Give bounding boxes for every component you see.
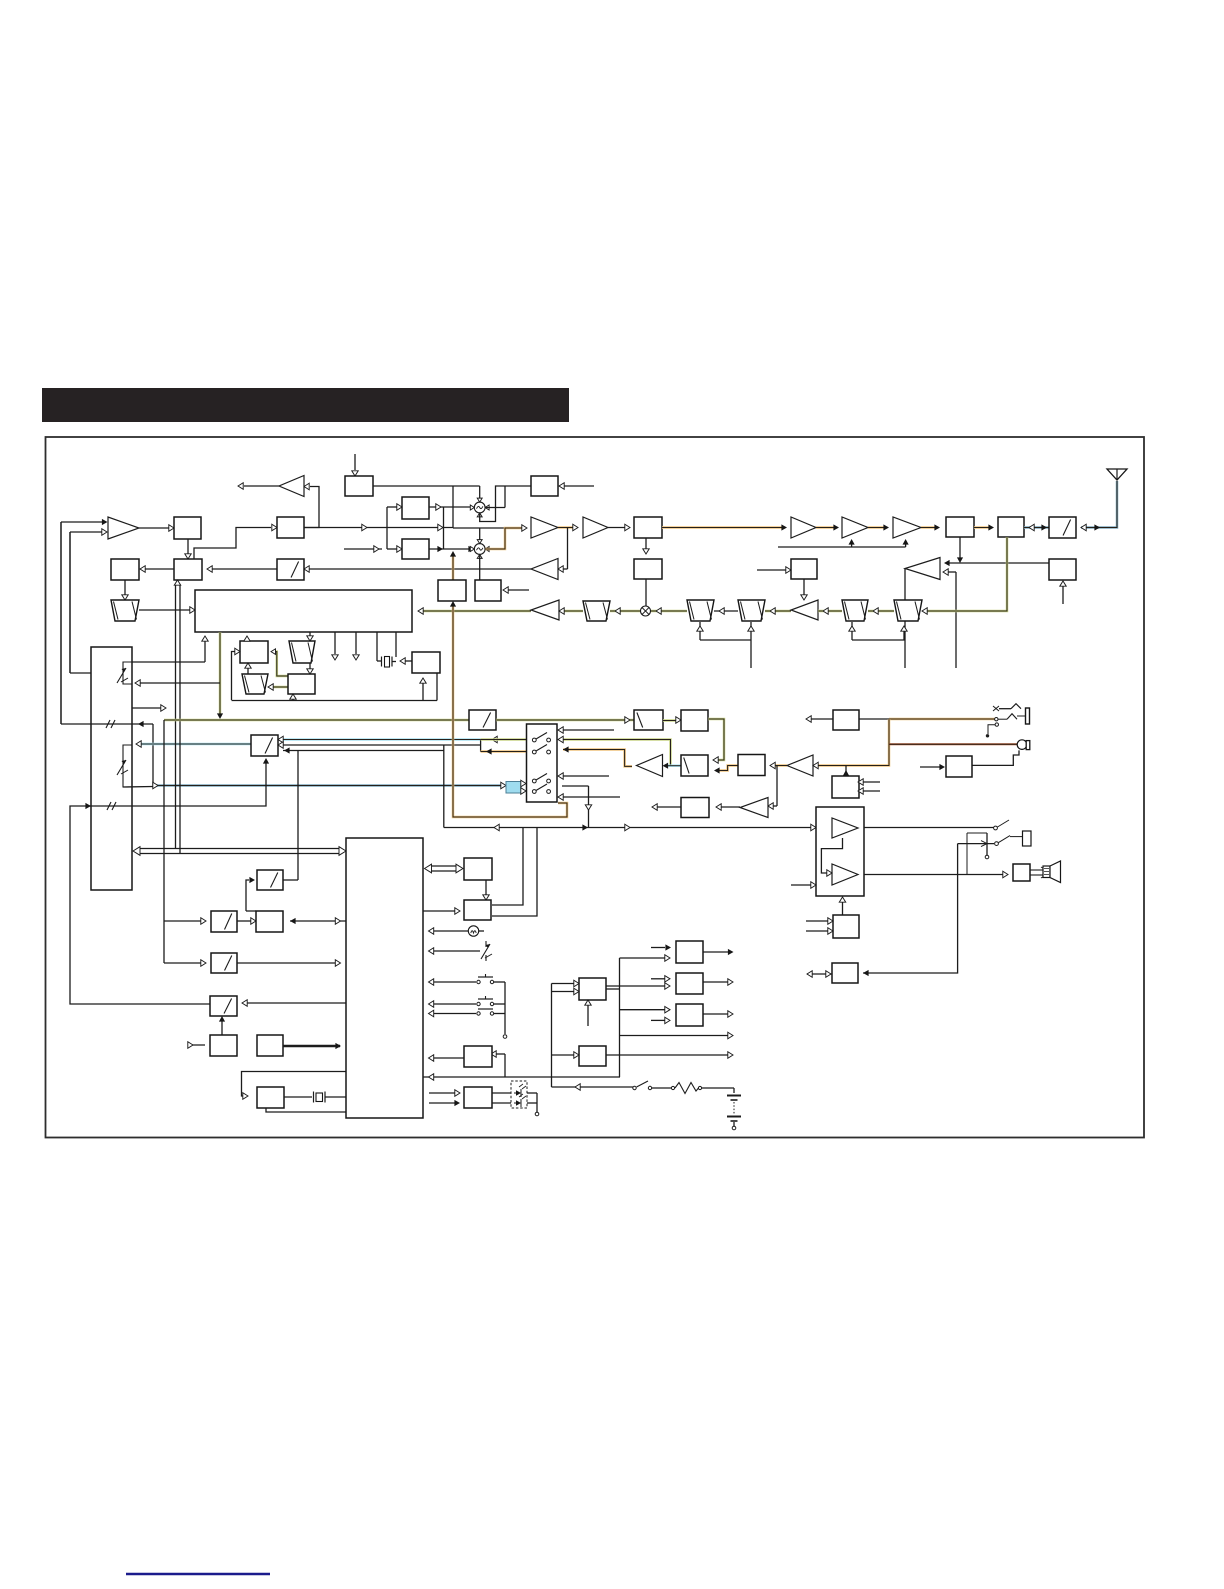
box L1: [111, 559, 139, 580]
battery BT1: [727, 1096, 741, 1130]
wire x620 vertical: [619, 958, 621, 1077]
stub into M2 right: [559, 483, 594, 489]
wire tallbox top feed: [70, 532, 91, 673]
amp A3: [583, 517, 608, 538]
wire to fuse: [652, 1087, 671, 1089]
wire PLL to crystal: [377, 632, 396, 661]
long verticals from amp A1 inputs: [61, 522, 70, 724]
box K6: [210, 1035, 237, 1056]
switch S2b: [532, 784, 550, 793]
wire K5 to X2: [284, 1096, 312, 1098]
button SW3: [429, 1009, 506, 1017]
IC audio PA: [816, 807, 864, 896]
wire K1 feed: [164, 918, 206, 924]
wire power line: [552, 1084, 634, 1090]
box olive1: [469, 710, 496, 730]
wire box4 to box3 orange: [714, 766, 738, 774]
wire K5 bottom to CPU: [266, 1108, 346, 1112]
wire BA in1: [651, 944, 671, 950]
wire J up to boxI: [297, 751, 299, 880]
wire cpu to R: [423, 908, 460, 914]
box W2: [791, 559, 817, 579]
wire G to E: [307, 663, 313, 674]
button SW1: [429, 974, 506, 985]
mic jack J2: [889, 740, 1030, 750]
IC switch matrix: [91, 647, 132, 890]
wire into amp A1 lower: [70, 529, 107, 535]
box V1 mod amp: [438, 580, 466, 601]
wire Q in1: [858, 779, 880, 785]
wire pa bottom tap: [839, 897, 845, 915]
wire H bottom tap: [420, 678, 426, 700]
box K3: [211, 953, 237, 973]
wire fuse to battery: [702, 1088, 734, 1093]
wire box5 out: [652, 804, 681, 810]
box5 af amp: [681, 798, 709, 818]
jack J1 contact lower: [995, 714, 1025, 721]
wire PLL out down arrows: [332, 632, 359, 660]
box BC reg: [676, 1004, 703, 1026]
wire into D left: [232, 648, 241, 700]
wire PLL to G: [307, 632, 313, 641]
box P2: [998, 517, 1024, 537]
thermistor TH1: [429, 926, 485, 936]
filter TF2: [687, 600, 714, 621]
wire RX into PLL: [418, 608, 531, 614]
wire TF3-TRIF: [765, 608, 791, 614]
mixer MIX1: [470, 498, 489, 517]
box V2: [475, 580, 501, 601]
wire R right1: [492, 828, 523, 906]
wire mixer3-TF2: [651, 608, 687, 614]
orange into switch: [481, 748, 527, 754]
wire mixer1 hook to M2: [480, 486, 531, 522]
long wire y527 from B3: [304, 524, 453, 530]
wire BL2 in: [552, 1052, 580, 1058]
wire x777 to TRIH: [768, 766, 777, 810]
wire B4 to B2: [207, 566, 277, 572]
IC analog switch: [527, 724, 558, 802]
wire BC in1: [620, 1006, 671, 1012]
trimmer notch upper: [123, 662, 132, 684]
sp jack J3: [1023, 831, 1032, 846]
amp TRI_F2: [787, 755, 813, 776]
box K2: [256, 911, 283, 932]
wire inside pa: [821, 838, 842, 876]
wire into TRIF-top box: [757, 567, 791, 573]
wire pa in2: [791, 882, 816, 888]
wire sw orange y750: [563, 746, 632, 766]
wire spk bus: [1030, 867, 1046, 878]
box B4 att: [277, 559, 304, 580]
wire A4-A5: [816, 524, 839, 530]
wire mixer1 right feed: [485, 486, 505, 508]
wire mod input y549: [344, 546, 402, 552]
wire B2 verticals: [174, 580, 180, 854]
wire B3 up to TRI1: [304, 483, 319, 527]
wire TF4-TRIF: [818, 608, 842, 614]
box F1 af sw: [833, 915, 859, 938]
box K5 reset: [257, 1087, 284, 1108]
wire BL1 feed: [552, 980, 580, 1087]
box H tcxo: [412, 652, 440, 673]
wire mixer2 bottom to V2: [479, 555, 481, 581]
olive line y721b: [496, 717, 634, 723]
box P1: [946, 517, 974, 537]
box Q squelch: [832, 776, 859, 798]
wire E to D olive: [271, 649, 288, 676]
wire Q in2: [858, 788, 880, 794]
box M1: [345, 476, 373, 496]
jack J1 break contact: [986, 723, 999, 738]
amp TRI_E: [832, 864, 858, 885]
wire BB out: [703, 979, 733, 985]
wire K5 feed elbow: [242, 1072, 347, 1100]
trimmer RV1: [117, 668, 128, 683]
filter T1: [111, 600, 139, 621]
amp TRI_C: [531, 600, 559, 620]
wire BL1 feed2: [552, 988, 580, 994]
wire B1 down to B2: [185, 539, 191, 559]
amp A6 PA: [893, 517, 921, 538]
wire F2 left bidir: [807, 971, 832, 977]
wire L1 down to filter T1: [122, 580, 128, 600]
wire TRI2 to B4: [304, 566, 531, 572]
box BL1 batt det: [579, 978, 606, 1000]
amp TRI_D: [832, 818, 858, 838]
wire leds common: [527, 1093, 539, 1116]
wire into mixer2 top: [479, 528, 481, 540]
wire TF1-TRIC: [559, 608, 583, 614]
wire sw stub y797: [558, 794, 620, 800]
wire BC out: [703, 1011, 733, 1017]
box D vco: [240, 641, 268, 663]
bus tallbox-cpu: [133, 847, 346, 856]
wire TRIH to box5: [716, 804, 740, 810]
wire olive vco out: [217, 632, 223, 719]
wire sw olive y740: [558, 736, 671, 765]
wire jog x480: [480, 740, 482, 752]
wire T1 to PLL: [139, 607, 195, 613]
wire af vol feed: [889, 718, 995, 721]
wire spk line: [864, 871, 1008, 877]
wire P1-P2: [974, 524, 994, 530]
wire mixer2 out orange: [485, 525, 527, 549]
amp TRI2 buffer: [531, 559, 558, 580]
wire T right: [491, 1051, 505, 1077]
IC CPU: [346, 838, 423, 1118]
wire TF1-mixer3: [610, 608, 640, 614]
wire S down to R: [483, 880, 489, 900]
wire K2 to CPU: [290, 918, 346, 924]
wire olive2-olive3: [663, 717, 681, 723]
jack J3 contact b: [958, 836, 1022, 847]
wire F1 in1: [806, 918, 833, 924]
box olive3: [681, 710, 708, 731]
box W mic amp: [833, 710, 859, 730]
wire AGC from TRI3: [904, 569, 906, 669]
wire RX from P2: [922, 537, 1007, 614]
wire P2-P3: [1024, 524, 1049, 530]
wire BL2 out: [606, 1052, 733, 1058]
box F2 ext sp: [832, 963, 858, 983]
wire olive3 hook to box3: [708, 719, 724, 763]
jack J3 contact a: [994, 820, 1009, 830]
mixer MIX2: [470, 540, 489, 559]
wire BB in2: [605, 983, 670, 989]
trimmer notch lower: [123, 745, 132, 787]
amp TRI_G: [637, 755, 663, 777]
wire orange mod return: [450, 601, 567, 817]
wire W right: [859, 718, 889, 720]
wire cpu led1: [429, 1090, 460, 1096]
box BB reg: [676, 973, 703, 994]
wire orange down x889: [813, 719, 889, 769]
wire BL1 out: [606, 988, 620, 990]
olive line y721: [164, 719, 469, 722]
box4 af filt: [738, 755, 765, 776]
wire K6 feed: [188, 1042, 205, 1048]
box M4: [634, 559, 662, 579]
wire buttons common: [503, 982, 507, 1038]
thick wire K7 to CPU: [283, 1043, 341, 1049]
wire BC in2: [651, 1017, 670, 1023]
wire TF2-TF3: [714, 608, 738, 614]
wire y806 boxI feed: [70, 758, 269, 1004]
wire AGC taps A: [697, 622, 754, 668]
wire cpu led2: [429, 1100, 460, 1106]
wire R right2: [492, 828, 537, 917]
wire box3 to TRIG: [663, 763, 682, 769]
box BL2: [579, 1046, 606, 1066]
wire into amp A1 upper: [61, 519, 108, 525]
wire P4 bottom: [1060, 581, 1066, 604]
box R: [464, 900, 491, 920]
amp A2: [531, 517, 558, 538]
wire af branch down: [443, 745, 445, 828]
antenna ANT1: [1107, 469, 1127, 480]
box B1: [174, 517, 201, 539]
wire sw stub y730: [558, 727, 614, 733]
wire boxI y750: [283, 747, 444, 753]
wire into mixer1 top: [479, 486, 481, 498]
vertical S1 junction: [387, 507, 444, 549]
LED block D1 D2: [511, 1081, 527, 1108]
wire cpu in y1077: [423, 1074, 620, 1080]
jack J3 break: [985, 833, 989, 859]
wire B2 to L1: [140, 566, 174, 572]
wire notch to junction: [123, 786, 153, 789]
filter TF1: [583, 601, 610, 621]
stub into V2 right: [503, 587, 529, 593]
IC PLL synthesizer: [195, 590, 412, 632]
box U led drv: [464, 1087, 492, 1108]
switch S1b: [532, 745, 550, 754]
wire mixer chain y528: [453, 527, 505, 529]
wire TF4-TF5: [868, 608, 894, 614]
wire F2 right from jack: [863, 844, 958, 976]
box P3 ant switch: [1049, 517, 1076, 538]
wire TRI1 output: [238, 483, 279, 489]
box K4: [210, 996, 237, 1016]
wire vert into TRI3 lower: [943, 569, 956, 668]
cyan splitter: [506, 780, 526, 794]
wire staircase B2 to B3: [194, 524, 277, 559]
wire into tallbox y683: [135, 680, 220, 686]
bus cpu to S: [425, 864, 464, 873]
olive into switch: [481, 738, 527, 741]
wire A6 bias: [778, 539, 909, 547]
wire U to leds: [492, 1093, 511, 1103]
pot VR3: [429, 941, 493, 961]
wire y528 branch down: [558, 528, 568, 572]
wire AGC taps B: [849, 622, 907, 640]
box BA reg: [676, 941, 703, 963]
wire K1-K2: [237, 918, 256, 924]
wire BA in2: [620, 955, 671, 961]
wire Q top tap: [843, 766, 849, 777]
wire af to sp jack: [864, 827, 994, 829]
mixer MIX3: [641, 606, 651, 616]
wire x164 vertical: [163, 720, 165, 963]
wire down x453: [452, 486, 454, 528]
wire M1 to mixers y486: [373, 485, 480, 487]
cyan line boxI to tallbox: [136, 741, 251, 747]
box S2: [402, 539, 429, 559]
wire x153 down to blue: [152, 724, 154, 786]
wire ref loop y700: [232, 673, 438, 701]
title bar: [42, 388, 569, 422]
wire bus y724 through tallbox: [61, 522, 153, 728]
wire y1034 out: [620, 1032, 734, 1038]
switch S2a: [532, 774, 550, 783]
wire af line y828: [444, 824, 816, 830]
wire F1 in2: [806, 928, 833, 934]
long TX drive wire: [662, 524, 787, 530]
amp A4: [791, 517, 816, 538]
fuse F10: [671, 1083, 701, 1094]
wire A2-A3: [558, 524, 578, 530]
amp TRI3: [905, 558, 940, 580]
wire BL1 bottom: [585, 1000, 591, 1026]
wire A1 to B1: [139, 525, 174, 531]
box spk drv: [1013, 864, 1030, 881]
wire P1 bottom: [957, 537, 963, 563]
wire into S1: [387, 504, 402, 510]
wire S1 to mixer1: [429, 504, 470, 510]
box J: [257, 870, 283, 890]
wire P3 to antenna: [1081, 481, 1117, 531]
wire J right up: [283, 879, 298, 881]
box S1: [402, 497, 429, 519]
box B2: [174, 559, 202, 580]
amp A1: [108, 517, 139, 539]
wire VCO up to y549: [450, 551, 456, 580]
wire boxI y745 stub: [278, 742, 481, 748]
diagram border frame: [46, 437, 1145, 1138]
filter TF3: [738, 600, 765, 621]
amp TRI1 out: [279, 476, 304, 497]
filter G: [289, 641, 315, 663]
box K1: [211, 911, 237, 932]
box olive2: [634, 710, 663, 730]
wire BA out: [703, 949, 734, 955]
wire M3 down: [643, 538, 649, 554]
box E vco buff: [288, 674, 315, 694]
wire P5 to mic jack: [973, 750, 1020, 765]
box P4: [1049, 559, 1076, 580]
filter TF5: [894, 600, 922, 621]
filter TF4: [842, 600, 868, 621]
wire S2 to mixer2: [429, 546, 474, 552]
wire A3-M3: [608, 524, 630, 530]
filter F lpf: [242, 674, 268, 694]
trimmer RV2: [117, 760, 128, 775]
switch S1a: [532, 733, 550, 742]
box K7: [257, 1035, 283, 1056]
wire A5-A6: [868, 524, 889, 530]
wire K4 to CPU: [242, 1000, 346, 1006]
wire BB in1: [651, 976, 670, 982]
box B3 TX buffer: [277, 517, 304, 538]
wire into M1 top: [352, 454, 358, 476]
box T: [464, 1046, 492, 1067]
wire K3 feed: [164, 960, 206, 966]
wire TRIF2 to box4: [770, 762, 787, 768]
box S eeprom: [464, 858, 492, 880]
crystal X1: [382, 657, 397, 668]
phones jack J1: [1026, 708, 1030, 724]
wire TRIF top feed: [801, 579, 807, 600]
wire P5 feed: [920, 764, 945, 770]
speaker SP1: [1043, 861, 1061, 883]
box M3: [634, 517, 662, 538]
blue line to switch BLU2: [153, 782, 506, 788]
wire E to F olive: [268, 684, 288, 690]
jack J1 contact upper: [993, 704, 1021, 711]
wire E bottom tap: [290, 694, 296, 700]
box I detector: [251, 735, 278, 756]
wire T to cpu: [429, 1055, 465, 1061]
amp TRI_F: [791, 600, 818, 620]
wire stub y708: [132, 705, 166, 711]
crystal X2: [314, 1092, 347, 1103]
wire PLL left return: [132, 636, 208, 662]
wire crystal to H: [400, 658, 412, 664]
wire sw row3 down: [562, 786, 592, 828]
cyan wire boxI right: [278, 736, 497, 742]
power switch S10: [633, 1081, 652, 1090]
wire A6-P1: [921, 524, 940, 530]
wire sp switch vert: [967, 833, 987, 874]
button SW2: [429, 996, 506, 1007]
footer link underline: [126, 1573, 270, 1575]
amp TRI_H: [740, 798, 768, 818]
box3 demph: [681, 755, 708, 776]
wire F up to D: [245, 663, 251, 674]
wire K3 to CPU: [237, 960, 341, 966]
wire D up to PLL: [244, 636, 250, 641]
box P5 mic amp: [946, 756, 972, 777]
wire K6 to K4: [219, 1016, 225, 1035]
amp A5: [842, 517, 868, 538]
wire sw stub y776: [558, 773, 609, 779]
wire P4 to TRI3: [944, 560, 1049, 566]
box M2: [531, 476, 558, 496]
wire M4 to mixer3: [645, 579, 647, 606]
wire J to K2: [246, 877, 256, 911]
wire W output stub: [806, 716, 833, 722]
